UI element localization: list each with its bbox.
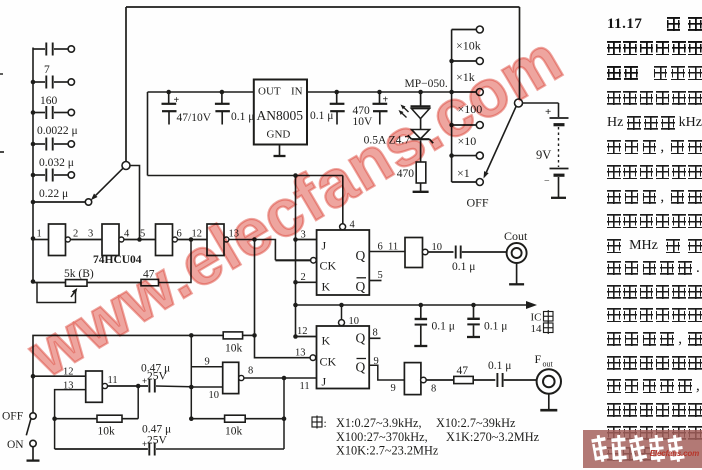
capacitor C4 0.032 μ <box>33 138 75 170</box>
svg-text:11: 11 <box>388 242 398 253</box>
svg-text:5k (B): 5k (B) <box>64 268 94 280</box>
svg-text:12: 12 <box>297 326 308 337</box>
wire U2D out (pin13) clock node to FF1 CK <box>229 237 311 260</box>
ground connector J2 <box>540 394 557 411</box>
svg-text:4: 4 <box>124 229 130 240</box>
svg-text:0.1 μ: 0.1 μ <box>488 360 511 372</box>
potentiometer RP1 5k(B) <box>31 268 94 297</box>
connector J2 Fout <box>535 352 562 394</box>
svg-text:25V: 25V <box>147 370 168 382</box>
svg-text:Q: Q <box>356 279 366 294</box>
wire U3B output to FF2 J pin 11 and feedback verticals <box>244 376 317 449</box>
capacitor C8 0.1u <box>310 92 345 125</box>
svg-text:J: J <box>322 375 327 389</box>
ground below resistor R1 <box>413 183 429 192</box>
node bias net vertical (supply to J,K pins) <box>293 176 298 339</box>
ground capacitor C13 <box>467 336 480 338</box>
resistor R1 470 <box>397 140 426 183</box>
svg-text:+: + <box>174 95 180 106</box>
svg-text:9: 9 <box>374 356 379 367</box>
svg-text:IN: IN <box>291 86 303 98</box>
svg-text:2: 2 <box>301 272 306 283</box>
capacitor C12 0.1u decoupling <box>415 305 455 345</box>
wire C11 to FF2 J vertical <box>156 448 284 450</box>
wire direct (no capacitor) selector position <box>33 199 92 205</box>
resistor R4 10k feedback U3A <box>55 415 139 437</box>
svg-text:5: 5 <box>378 270 383 281</box>
wire FF2 K pin 12 <box>296 326 317 337</box>
wire ring oscillator input from bus to U2A <box>33 239 49 241</box>
svg-text:13: 13 <box>295 348 306 359</box>
inverter U4A Cout buffer <box>405 238 442 268</box>
capacitor C7 0.1u <box>215 92 255 125</box>
inverter U2B 74HCU04 <box>102 224 124 256</box>
ground AN8005 GND pin <box>274 145 286 157</box>
watermark corner box elecfans <box>583 430 702 468</box>
svg-text:CK: CK <box>320 355 337 369</box>
svg-text:X10:2.7~39kHz: X10:2.7~39kHz <box>436 416 516 430</box>
wire unregulated rail (AN8005 IN to range switch bus) <box>307 90 452 95</box>
connector J1 Cout <box>504 229 528 263</box>
ground capacitor C12 <box>414 345 427 347</box>
ground connector J1 <box>509 263 524 284</box>
wire C10 to node A (U3B pin10) <box>156 385 191 388</box>
svg-text:10k: 10k <box>225 343 243 355</box>
svg-text:5: 5 <box>140 229 145 240</box>
wire R2 to oscillator node (pin6/12) <box>159 240 192 283</box>
svg-text:7: 7 <box>44 64 50 76</box>
wire FF1 Qbar pin 5 stub <box>369 270 382 281</box>
wire U2B out to U2C in (pins 4-5) with selector tap <box>124 237 156 242</box>
capacitor C9 470/10V electrolytic <box>353 92 389 128</box>
svg-text:9: 9 <box>391 383 396 394</box>
wire regulated supply rail (AN8005 OUT) <box>148 90 254 176</box>
capacitor C15 0.1u coupling <box>473 360 536 387</box>
capacitor C13 0.1u decoupling <box>467 305 507 336</box>
svg-text:X1:0.27~3.9kHz,: X1:0.27~3.9kHz, <box>336 416 422 430</box>
svg-text:Q: Q <box>356 360 366 375</box>
inverter U2C 74HCU04 <box>156 224 178 256</box>
svg-text:10: 10 <box>209 390 220 401</box>
wire R4 up to U3A output node <box>136 384 141 419</box>
svg-text:ON: ON <box>7 439 24 451</box>
capacitor C5 0.22 μ <box>33 169 75 201</box>
wire FF2 set pin 10 to supply rail <box>341 305 343 320</box>
svg-text:0.032 μ: 0.032 μ <box>39 157 74 169</box>
svg-text:0.1 μ: 0.1 μ <box>484 321 507 333</box>
switch S1b contact ×10k <box>452 26 484 53</box>
battery B1 9V <box>523 103 569 197</box>
svg-text:J: J <box>322 239 327 253</box>
inverter U2D 74HCU04 <box>207 224 229 256</box>
svg-text:3: 3 <box>88 229 93 240</box>
svg-text:4: 4 <box>350 220 356 231</box>
svg-text:+: + <box>383 95 389 106</box>
svg-text:10k: 10k <box>225 426 243 438</box>
resistor R6 47 output <box>426 365 473 384</box>
svg-text:×10k: ×10k <box>456 39 481 53</box>
capacitor C11 0.47u 25V electrolytic <box>55 424 172 456</box>
svg-text:0.0022 μ: 0.0022 μ <box>37 125 78 137</box>
wire lower supply rail to flip-flop set pin 4 <box>148 173 343 223</box>
svg-text:8: 8 <box>248 366 253 377</box>
svg-text:10k: 10k <box>98 426 116 438</box>
svg-text:Q: Q <box>356 331 366 346</box>
switch S1b contact ×1k <box>452 58 484 85</box>
svg-text:−: − <box>544 176 550 187</box>
ground switch S2 <box>27 447 40 461</box>
LED D1 MP-050 <box>399 78 448 119</box>
svg-text:X10K:2.7~23.2MHz: X10K:2.7~23.2MHz <box>336 444 439 458</box>
label note frequency ranges <box>312 416 540 458</box>
svg-text:0.1 μ: 0.1 μ <box>231 111 254 123</box>
svg-text:0.1 μ: 0.1 μ <box>310 110 333 122</box>
svg-text::: : <box>324 418 327 430</box>
svg-text:11: 11 <box>300 381 310 392</box>
svg-text:GND: GND <box>267 129 291 141</box>
inverter U4B Fout buffer <box>404 363 436 395</box>
svg-text:10: 10 <box>349 316 360 327</box>
wire U3A input pin 13 from feedback <box>52 381 85 450</box>
svg-text:X1K:270~3.2MHz: X1K:270~3.2MHz <box>446 430 540 444</box>
flip-flop FF2 JK <box>310 316 369 389</box>
inverter U3B gate <box>209 362 254 401</box>
svg-text:OUT: OUT <box>258 86 281 98</box>
svg-text:CK: CK <box>320 259 337 273</box>
svg-text:8: 8 <box>431 384 436 395</box>
wire selector pivot to inverter U2B/U2C junction <box>139 239 141 240</box>
svg-text:9: 9 <box>205 357 210 368</box>
switch S2 OFF/ON power <box>2 411 36 452</box>
zener diode D2 0.5A Z4.7 <box>364 119 434 147</box>
wire clock line U2D pin13 down to FF2 CK <box>252 240 310 359</box>
page edge tick marks <box>0 74 4 152</box>
wire U3A input pin 12 <box>33 367 86 378</box>
svg-text:OFF: OFF <box>2 411 23 423</box>
svg-text:AN8005: AN8005 <box>257 108 304 123</box>
resistor R2 47 feedback <box>87 269 159 286</box>
svg-text:IC: IC <box>531 312 542 324</box>
ground battery negative <box>551 197 566 199</box>
switch S1b contact ×100 <box>452 89 484 117</box>
svg-text:0.22 μ: 0.22 μ <box>39 188 68 200</box>
switch S1a range selector wiper (capacitor bank) <box>91 162 140 239</box>
svg-text:K: K <box>322 334 331 348</box>
svg-text:25V: 25V <box>147 435 168 447</box>
svg-text:Q: Q <box>356 248 366 263</box>
capacitor C1 7 <box>33 43 75 77</box>
svg-text:2: 2 <box>73 229 78 240</box>
wire FF1 K pin 2 <box>296 272 317 283</box>
svg-text:1: 1 <box>37 229 42 240</box>
watermark diagonal www.elecfans.com <box>18 24 572 387</box>
capacitor C6 47/10V electrolytic <box>162 92 212 125</box>
wire RP1 wiper short to track (rheostat loop) <box>37 283 76 303</box>
svg-text:47: 47 <box>457 365 469 377</box>
node A vertical (rail to R5) <box>189 335 194 421</box>
U2 pin number labels <box>37 229 240 240</box>
capacitor C14 0.1u coupling <box>428 246 506 274</box>
switch S1b contact ×10 <box>452 122 484 149</box>
flip-flop FF1 JK <box>311 220 370 296</box>
switch S1b contact OFF <box>452 179 489 210</box>
resistor R3 10k clock <box>191 332 254 355</box>
svg-text:47/10V: 47/10V <box>177 112 212 124</box>
svg-text:out: out <box>543 360 554 369</box>
svg-text:Cout: Cout <box>504 229 528 243</box>
wire FF2 Qbar pin 9 to buffer U4B <box>369 356 404 394</box>
inverter U3A gate <box>86 371 118 402</box>
node left oscillator input bus <box>31 48 36 282</box>
svg-text:14: 14 <box>531 323 543 335</box>
inverter U2A 74HCU04 <box>49 224 71 256</box>
svg-text:8: 8 <box>373 328 378 339</box>
svg-text:+: + <box>545 106 551 118</box>
switch S1b range contacts bus <box>449 30 454 183</box>
wire U2A out to U2B in (pins 2-3) <box>71 239 102 241</box>
svg-text:0.1 μ: 0.1 μ <box>432 321 455 333</box>
label IC pin 14 (Chinese) <box>531 310 554 335</box>
wire gating rail (switch to R3 and U3) <box>31 333 194 413</box>
svg-text:×1: ×1 <box>457 166 470 180</box>
switch S1b power wiper arm from battery <box>484 99 523 179</box>
svg-text:6: 6 <box>378 242 383 253</box>
wire U2C out to U2D in (pins 6-12) with feedback tap <box>177 237 207 242</box>
svg-text:0.1 μ: 0.1 μ <box>452 261 475 273</box>
capacitor C10 0.47u 25V electrolytic <box>108 363 171 393</box>
capacitor C2 160 <box>33 76 75 108</box>
capacitor C3 0.0022 μ <box>33 106 78 137</box>
regulator U1 AN8005 <box>254 80 307 145</box>
resistor R5 10k feedback U3B <box>191 415 284 437</box>
svg-text:11: 11 <box>108 375 118 386</box>
svg-text:F: F <box>535 352 542 366</box>
switch S1b contact ×1 <box>452 152 484 180</box>
wire FF1 J pin 3 <box>296 230 317 241</box>
wire U3B input pin 9 <box>191 357 222 368</box>
wire U3B input pin 10 from node A <box>191 386 222 388</box>
wire top rail from left selector to power switch <box>126 7 520 162</box>
svg-text:X100:27~370kHz,: X100:27~370kHz, <box>336 430 428 444</box>
label 74HCU04 <box>93 254 142 266</box>
svg-text:K: K <box>322 280 331 294</box>
wire supply rail to IC pin 14 (arrow) <box>296 301 538 309</box>
wire FF1 Q pin 6 to buffer U4A pin 11 <box>369 242 405 253</box>
svg-text:9V: 9V <box>536 148 551 162</box>
wire FF2 Q pin 8 stub <box>369 328 380 339</box>
svg-text:160: 160 <box>40 95 58 107</box>
svg-text:OFF: OFF <box>467 196 489 210</box>
